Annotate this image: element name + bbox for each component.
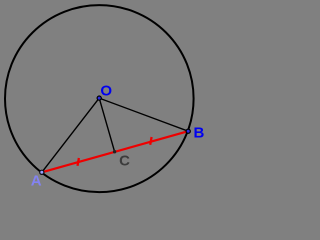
svg-text:A: A [31,172,42,189]
svg-text:B: B [194,124,205,141]
svg-text:O: O [100,83,112,100]
svg-text:C: C [119,153,130,170]
